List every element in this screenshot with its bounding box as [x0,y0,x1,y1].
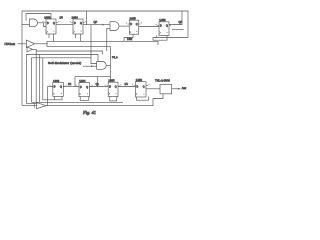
wire FF1 to FF2 [56,24,73,26]
wire feedback corner y54.5 [27,55,99,104]
svg-text:1462: 1462 [127,39,133,41]
xor-gate U15 [37,103,47,109]
wire FF2 output down to gate U7 [91,25,97,64]
svg-text:1466: 1466 [159,18,166,22]
svg-text:1463: 1463 [53,79,60,83]
wire FF2 output up to top border [86,11,88,25]
output box U14 [160,85,172,94]
svg-text:Q: Q [86,87,88,89]
wire clock line B [47,47,111,83]
flip-flop U11 [79,83,90,97]
wire U12 to U13 [118,86,136,88]
wire inverter output to line C [33,49,37,51]
wire buffer output [35,43,47,45]
svg-text:TNL-1-5600: TNL-1-5600 [155,79,170,83]
svg-text:QP: QP [179,21,183,24]
wire top feedback to FF1 preset [26,14,51,21]
flip-flop U10 [53,82,64,96]
wire clock line C [36,50,103,52]
wire R drop left [74,77,76,87]
flip-flop U3 [73,19,83,34]
buffer U8 [26,40,34,47]
svg-text:1466: 1466 [136,78,143,82]
wire U4 output to FF3 [119,25,129,27]
wire U15 output up to U10 input [46,87,48,106]
wire U13 to output box [146,88,160,90]
svg-text:Q: Q [115,87,117,89]
svg-text:1464: 1464 [79,79,86,83]
wire U15 output bottom run to output box [48,94,164,106]
svg-text:Self-Modulator (model): Self-Modulator (model) [48,61,81,65]
wire U15 input 1 from outer border [22,104,37,106]
svg-text:rst_a: rst_a [112,56,118,59]
wire buffer output junction vertical [46,41,48,46]
and-gate U7 [97,62,106,70]
wire feedback corner y57.8 [32,58,92,103]
inverter U9 small [27,47,33,52]
wire clock line A [47,41,158,45]
wire U11 to U12 [90,86,109,88]
wire outer feedback border [22,11,188,105]
wire FF1 clock stubs down [48,34,50,38]
and-gate U1 [30,19,38,27]
wire left drop pair a [39,55,41,103]
wire FF3 lower-left stub [124,34,133,41]
svg-text:1463: 1463 [44,16,51,20]
wire input to buffer [18,43,27,45]
svg-text:QA: QA [96,83,100,86]
svg-text:1465: 1465 [108,79,115,83]
wire R drop mid [97,77,99,87]
wire U7 output to reset vertical [106,64,110,66]
svg-text:1465: 1465 [130,17,137,21]
svg-text:QP: QP [94,21,98,24]
flip-flop U5 [129,20,138,34]
wire U13 under bracket [137,97,149,101]
svg-text:Q: Q [166,26,168,28]
flip-flop U2 [46,19,56,34]
wire U1 lower input [22,23,30,25]
svg-text:FF/Clock: FF/Clock [5,42,16,46]
svg-text:Q: Q [136,24,138,26]
wire left drop pair b [43,58,55,100]
and-gate U4 [110,22,119,31]
wire U11 under bracket [80,97,89,101]
svg-text:1/4: 1/4 [60,18,64,20]
svg-text:1/4: 1/4 [68,84,72,86]
wire FF4 lower pin wire [172,29,184,31]
wire FF4 Q output up to top border [169,11,182,25]
flip-flop U6 [159,22,169,36]
wire FF3 output to FF4 [139,26,159,28]
wire inverted clock drop to bottom bus [35,51,37,102]
svg-text:1/4: 1/4 [125,84,129,86]
wire reset line R [75,76,111,78]
wire U4 lower input feedback from clock line [107,28,110,51]
wire label arrow to gate U7 [83,65,97,67]
wire U10 input [48,86,53,88]
svg-text:Aux: Aux [182,87,187,90]
wire U10 to U11 [63,86,79,88]
svg-text:Fig. 41: Fig. 41 [82,110,96,115]
wire FF2 output to gate U4 with arrow [83,24,110,26]
wire FF pin stubs and pin-number specks [43,21,173,95]
wire right border to FF4 bracket [153,35,188,40]
wire U15 input 2 [27,103,37,105]
wire line C right drop [102,51,104,55]
svg-text:Q: Q [80,23,82,25]
svg-text:1464: 1464 [72,16,79,20]
wire U12 under bracket [110,97,117,101]
wire output with arrow [172,88,181,90]
flip-flop U13 [136,82,147,97]
wire stub left of FF4 [156,35,158,37]
wire U1 output to FF1 [37,23,46,27]
svg-text:Q: Q [143,86,145,88]
wire bottom clock bus [32,101,124,103]
flip-flop U12 [108,82,118,96]
wire FF2 clock stubs down [75,34,77,38]
svg-text:Q: Q [60,87,62,89]
wire U10 under bracket [55,96,63,99]
svg-text:Q: Q [53,23,55,25]
